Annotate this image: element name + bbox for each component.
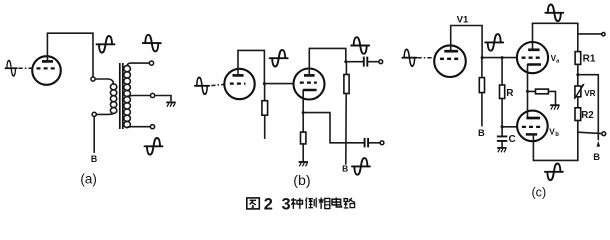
signal sine top (in phase): [545, 5, 563, 22]
wire plate b2 up and right: [309, 48, 346, 61]
node secondary top terminal: [149, 61, 153, 65]
node plate junction: [344, 60, 347, 63]
wire cap to ground: [501, 141, 503, 147]
node primary-B terminal: [92, 112, 96, 116]
transformer primary winding: [110, 84, 116, 114]
wire terminal to primary top: [95, 79, 113, 84]
wire to B supply: [93, 117, 95, 153]
ground (b): [299, 162, 308, 166]
wire resistor to ground: [302, 144, 304, 162]
svg-text:B: B: [478, 127, 485, 138]
ground (c) middle: [550, 105, 559, 109]
hanzi DAO (invert): [305, 198, 316, 209]
resistor plate b2: [344, 75, 349, 94]
wire primary bottom lead: [96, 113, 113, 114]
wire tap to ground: [155, 96, 171, 101]
capacitor bottom output: [365, 138, 369, 147]
svg-text:2: 2: [264, 195, 273, 213]
wire cathode to resistor: [302, 113, 304, 133]
svg-text:V1: V1: [457, 15, 469, 26]
resistor cathode: [301, 132, 306, 144]
wire below to B: [481, 93, 483, 126]
wire Va cathode to Vb plate: [527, 65, 529, 118]
B feed arrowhead: [597, 141, 601, 147]
wire resistor to ground: [548, 91, 555, 104]
svg-text:R: R: [506, 88, 514, 99]
output sine top (in phase): [351, 37, 369, 54]
wire junction to cap C: [501, 127, 503, 137]
wire R2 to bottom output: [577, 121, 579, 132]
svg-text:(a): (a): [80, 172, 96, 187]
wire grid lead (dashed): [418, 57, 435, 59]
wire cathode to bottom cap: [303, 113, 364, 143]
wire to top coupling cap: [346, 61, 363, 63]
wire cathode lead: [302, 90, 304, 113]
svg-text:B: B: [91, 154, 97, 164]
input signal sine: [195, 78, 209, 95]
triode tube (a): [32, 33, 61, 85]
node junction grid Vb: [501, 125, 504, 128]
resistor grid b2: [262, 101, 268, 116]
node center tap terminal: [151, 93, 155, 97]
wire R to grid Vb junction: [502, 99, 517, 127]
wire resistor to B: [345, 94, 347, 165]
triode tube Va: [517, 23, 548, 73]
ground (c) input: [497, 148, 506, 152]
hanzi ZHONG (kind): [291, 198, 303, 209]
input signal sine: [5, 61, 17, 76]
node junction R: [501, 56, 504, 59]
wire grid lead (dashed): [19, 67, 33, 69]
svg-text:R2: R2: [581, 110, 594, 121]
node output terminal bottom: [602, 132, 606, 136]
wire to grid resistor: [264, 84, 266, 101]
output sine bottom (inverted): [352, 158, 370, 175]
wire R1 to VR: [577, 64, 579, 86]
coupling sine (inverted): [485, 34, 503, 51]
resistor cathode Va: [536, 89, 549, 94]
node junction B rail: [576, 73, 579, 76]
wire top output: [578, 33, 602, 35]
input signal sine: [402, 49, 416, 66]
wire cap to terminal: [368, 61, 378, 63]
resistor R2: [575, 108, 581, 121]
triode tube Vb: [517, 111, 548, 142]
wire below resistor: [264, 115, 266, 138]
svg-text:R1: R1: [583, 54, 596, 65]
capacitor C: [497, 136, 507, 141]
triode tube b2: [294, 48, 325, 99]
hanzi TU (figure): [247, 198, 260, 209]
resistor R: [500, 85, 505, 99]
node junction left: [481, 56, 484, 59]
hanzi LU (circuit): [344, 198, 355, 208]
output sine top (in phase): [143, 35, 161, 52]
hanzi DIAN (electric): [332, 198, 342, 208]
wire B supply rail right and down: [578, 75, 599, 140]
wire top rail: [533, 23, 578, 51]
resistor left bias: [479, 78, 484, 93]
wire V1 plate to grid rail: [451, 26, 517, 58]
node output terminal top: [379, 60, 383, 64]
svg-text:VR: VR: [584, 89, 595, 98]
wire center tap: [128, 95, 151, 98]
wire junction to plate resistor: [345, 62, 347, 75]
wire grid lead (dashed): [211, 84, 224, 85]
wire to left resistor: [481, 58, 483, 78]
wire junction to cathode resistor: [528, 90, 536, 92]
node cathode junction: [526, 90, 529, 93]
wire plate to terminal: [47, 33, 93, 77]
svg-text:B: B: [342, 164, 348, 174]
potentiometer VR: [574, 84, 584, 99]
triode tube V1: [434, 26, 466, 78]
wire secondary top lead: [127, 63, 149, 66]
node plate terminal: [91, 77, 95, 81]
node output terminal bottom: [380, 141, 384, 145]
wire bottom output: [578, 132, 602, 133]
svg-text:B: B: [593, 151, 600, 162]
svg-text:b: b: [555, 132, 559, 138]
resistor R1: [575, 52, 581, 65]
wire cap to terminal: [369, 142, 380, 144]
coupling signal sine (inverted): [270, 50, 288, 67]
wire plate b1 to grid b2 junction: [238, 50, 294, 83]
svg-text:3: 3: [282, 195, 291, 213]
wire VR to R2: [577, 97, 579, 108]
wire secondary bottom lead: [127, 126, 150, 129]
svg-text:(b): (b): [293, 173, 310, 189]
svg-text:C: C: [509, 134, 516, 145]
capacitor top output: [364, 57, 368, 67]
wire to resistor R: [501, 58, 503, 85]
node junction: [263, 82, 266, 85]
ground (a): [166, 102, 175, 106]
hanzi XIANG (phase): [318, 198, 329, 209]
triode tube b1: [224, 50, 254, 99]
transformer secondary winding: [124, 66, 131, 128]
output sine bottom (inverted): [145, 138, 163, 155]
node cathode junction: [302, 111, 305, 114]
plate signal sine (inverted): [97, 36, 115, 53]
svg-text:(c): (c): [531, 186, 546, 200]
node secondary bottom terminal: [150, 125, 154, 129]
wire Vb cathode down to bottom rail: [533, 132, 577, 161]
svg-text:V: V: [549, 127, 555, 136]
signal sine bottom (inverted): [545, 164, 563, 181]
node output terminal top: [602, 33, 605, 36]
transformer core: [120, 63, 123, 129]
